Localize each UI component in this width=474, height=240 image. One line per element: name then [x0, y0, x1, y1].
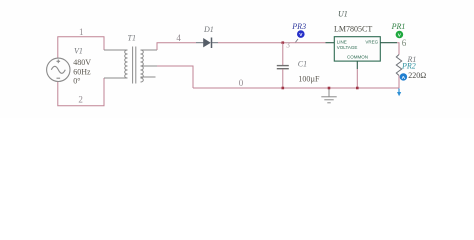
wire C1 top — [282, 43, 284, 65]
wire net3 — [218, 42, 326, 44]
svg-text:60Hz: 60Hz — [73, 67, 91, 76]
svg-text:4: 4 — [176, 33, 181, 43]
T1 secondary lead top — [141, 49, 158, 51]
D1 anode lead — [196, 42, 204, 44]
junction U1/rail — [356, 87, 359, 90]
svg-text:VOLTAGE: VOLTAGE — [337, 45, 358, 50]
svg-text:2: 2 — [78, 95, 83, 105]
svg-text:480V: 480V — [73, 58, 91, 67]
probe PR1 — [396, 31, 404, 39]
svg-text:3: 3 — [286, 41, 290, 50]
T1 primary lead top — [104, 49, 128, 51]
svg-text:LINE: LINE — [337, 39, 347, 44]
resistor R1 — [396, 55, 401, 76]
svg-text:0: 0 — [239, 78, 244, 88]
U1 output pin lead — [380, 42, 397, 44]
AC source V1 — [47, 58, 70, 81]
svg-text:COMMON: COMMON — [347, 55, 368, 60]
junction C1/rail — [282, 87, 285, 90]
probe PR2 — [400, 73, 407, 80]
svg-text:PR1: PR1 — [391, 22, 406, 31]
svg-text:U1: U1 — [338, 10, 348, 19]
svg-text:0°: 0° — [73, 77, 80, 86]
wire net6 — [397, 43, 399, 55]
D1 cathode lead — [212, 42, 218, 44]
wire R1 bottom — [398, 76, 400, 89]
T1 primary lead bottom — [104, 77, 128, 79]
svg-text:A: A — [402, 75, 406, 81]
svg-text:VREG: VREG — [365, 39, 378, 44]
T1 secondary lead mid — [141, 65, 158, 67]
svg-text:LM7805CT: LM7805CT — [334, 25, 372, 34]
svg-text:220Ω: 220Ω — [408, 71, 426, 80]
C1 plate bottom — [277, 68, 289, 70]
wire net0 secondary to rail — [157, 66, 193, 88]
wire net0 ground rail — [193, 87, 399, 89]
wire net2 bottom-left — [58, 78, 104, 106]
PR2 arrow — [398, 88, 400, 92]
D1 triangle — [203, 38, 211, 47]
U1 input pin lead — [326, 42, 335, 44]
C1 plate top — [277, 65, 289, 67]
wire net1 top-left — [58, 37, 104, 59]
wire C1 bottom — [282, 69, 284, 88]
T1 secondary coil — [141, 50, 144, 82]
svg-text:PR2: PR2 — [401, 61, 416, 70]
svg-text:V1: V1 — [74, 47, 83, 56]
wire net4 — [157, 43, 196, 50]
ground symbol — [321, 88, 336, 103]
svg-text:D1: D1 — [203, 25, 214, 34]
U1 common pin lead — [356, 61, 358, 69]
U1 body — [334, 37, 380, 61]
T1 core — [132, 47, 134, 84]
svg-text:C1: C1 — [298, 59, 307, 68]
svg-text:6: 6 — [402, 38, 407, 48]
T1 primary coil — [125, 50, 128, 78]
svg-text:T1: T1 — [128, 34, 136, 43]
svg-text:100µF: 100µF — [298, 74, 320, 83]
probe PR3 — [296, 39, 299, 42]
D1 cathode bar — [211, 38, 213, 49]
svg-text:PR3: PR3 — [291, 22, 306, 31]
svg-text:1: 1 — [79, 27, 84, 37]
junction net3/C1 — [282, 41, 285, 44]
T1 secondary lead stub — [141, 76, 156, 78]
wire U1 common to rail — [356, 69, 358, 88]
junction ground/rail — [328, 87, 331, 90]
